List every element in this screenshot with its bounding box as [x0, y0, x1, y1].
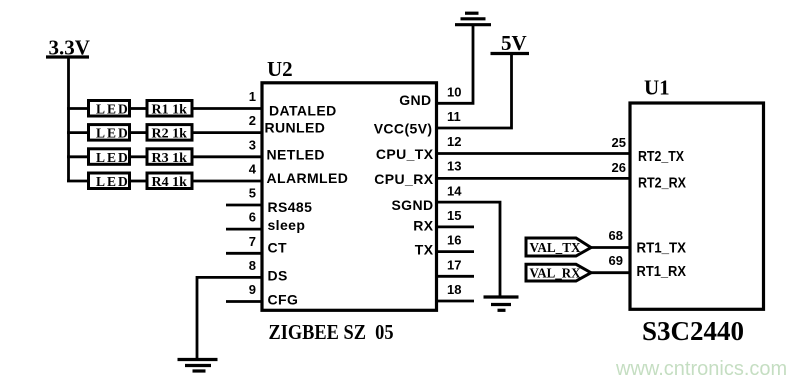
wire bus to LED3 — [67, 155, 88, 158]
wire R3 to U2 pin 3 — [192, 155, 262, 158]
LED D4 — [89, 173, 130, 189]
pin 16 stub and number — [437, 233, 475, 252]
svg-text:15: 15 — [447, 208, 461, 223]
svg-text:ZIGBEE SZ 05: ZIGBEE SZ 05 — [269, 320, 394, 344]
wire U2 pin 12 to U1 pin 25 (CPU_TX to RT2_TX) — [437, 152, 631, 155]
pin 5 stub and number — [226, 186, 262, 206]
svg-text:4: 4 — [249, 162, 257, 177]
svg-text:11: 11 — [447, 109, 461, 124]
svg-text:sleep: sleep — [268, 217, 306, 233]
pin 7 stub and number — [226, 234, 262, 254]
svg-text:DS: DS — [268, 267, 288, 283]
wire R1 to U2 pin 1 — [192, 107, 262, 110]
power 5V — [491, 31, 530, 55]
svg-text:26: 26 — [612, 160, 626, 175]
svg-text:ALARMLED: ALARMLED — [267, 170, 349, 186]
svg-text:18: 18 — [447, 282, 461, 297]
svg-text:7: 7 — [249, 234, 256, 249]
svg-text:CPU_TX: CPU_TX — [376, 146, 434, 162]
svg-text:RUNLED: RUNLED — [265, 120, 326, 136]
wire bus to LED4 — [67, 180, 88, 183]
svg-text:8: 8 — [249, 258, 256, 273]
svg-text:25: 25 — [612, 135, 626, 150]
svg-text:17: 17 — [447, 257, 461, 272]
svg-text:5: 5 — [249, 186, 256, 201]
IC U2 body — [262, 83, 437, 310]
wire LED2 to R2 — [131, 131, 147, 134]
LED D2 — [89, 125, 130, 141]
power 3.3V — [46, 36, 90, 60]
LED D1 — [89, 101, 130, 117]
resistor R1 1k — [147, 101, 192, 118]
pin 9 stub and number — [226, 282, 262, 302]
svg-text:LED: LED — [96, 102, 130, 117]
signal flag VAL_RX — [526, 264, 591, 281]
svg-text:U1: U1 — [644, 76, 670, 100]
svg-text:VAL_RX: VAL_RX — [530, 266, 581, 281]
ground symbol top (inverted) — [455, 13, 491, 25]
wire R4 to U2 pin 4 — [192, 180, 262, 183]
svg-text:2: 2 — [249, 113, 256, 128]
svg-text:LED: LED — [96, 174, 130, 189]
svg-text:GND: GND — [399, 92, 431, 108]
ground symbol bottom left — [178, 360, 218, 372]
wire bus to LED2 — [67, 131, 88, 134]
svg-text:U2: U2 — [267, 57, 293, 81]
resistor R2 1k — [147, 125, 192, 142]
svg-text:VAL_TX: VAL_TX — [530, 240, 581, 255]
svg-text:www.cntronics.com: www.cntronics.com — [615, 358, 787, 380]
svg-text:12: 12 — [447, 134, 461, 149]
svg-text:LED: LED — [96, 150, 130, 165]
svg-text:9: 9 — [249, 282, 256, 297]
svg-text:RT1_RX: RT1_RX — [637, 264, 687, 280]
wire LED4 to R4 — [131, 180, 147, 183]
wire R2 to U2 pin 2 — [192, 131, 262, 134]
wire 3.3V bus vertical — [67, 57, 70, 181]
wire VAL_TX to U1 pin 68 — [591, 246, 630, 249]
svg-text:VCC(5V): VCC(5V) — [374, 121, 433, 137]
wire U2 pin 8 to ground — [197, 277, 262, 358]
svg-text:CPU_RX: CPU_RX — [374, 171, 433, 187]
svg-text:R2 1k: R2 1k — [152, 127, 188, 142]
svg-text:16: 16 — [447, 233, 461, 248]
svg-text:RT2_TX: RT2_TX — [638, 149, 684, 165]
svg-text:R3 1k: R3 1k — [152, 151, 188, 166]
svg-text:69: 69 — [609, 253, 623, 268]
svg-text:3: 3 — [249, 137, 256, 152]
resistor R4 1k — [147, 173, 192, 190]
wire U2 pin 11 to 5V — [437, 54, 512, 128]
wire U2 pin 10 to top ground — [437, 25, 474, 103]
svg-text:TX: TX — [415, 242, 434, 258]
svg-text:CT: CT — [268, 240, 288, 256]
svg-text:DATALED: DATALED — [269, 103, 337, 119]
svg-text:SGND: SGND — [391, 197, 433, 213]
svg-text:13: 13 — [447, 159, 461, 174]
wire LED3 to R3 — [131, 155, 147, 158]
resistor R3 1k — [147, 149, 192, 166]
svg-text:NETLED: NETLED — [267, 146, 325, 162]
svg-text:1: 1 — [249, 89, 256, 104]
svg-text:10: 10 — [447, 85, 461, 100]
svg-text:14: 14 — [447, 183, 462, 198]
wire U2 pin 14 (SGND) to ground — [437, 202, 501, 296]
svg-text:RT1_TX: RT1_TX — [637, 240, 687, 256]
IC U1 body — [630, 103, 764, 309]
pin 6 stub and number — [226, 210, 262, 230]
svg-text:68: 68 — [609, 228, 623, 243]
svg-text:R1 1k: R1 1k — [152, 103, 188, 118]
LED D3 — [89, 149, 130, 165]
wire VAL_RX to U1 pin 69 — [591, 271, 630, 274]
pin 18 stub and number — [437, 282, 475, 301]
svg-text:CFG: CFG — [268, 291, 299, 307]
svg-text:S3C2440: S3C2440 — [642, 316, 744, 346]
pin 17 stub and number — [437, 257, 475, 276]
svg-text:RT2_RX: RT2_RX — [638, 176, 686, 192]
svg-text:5V: 5V — [501, 31, 527, 55]
svg-text:RS485: RS485 — [268, 199, 313, 215]
wire bus to LED1 — [67, 107, 88, 110]
svg-text:LED: LED — [96, 126, 130, 141]
wire U2 pin 13 to U1 pin 26 (CPU_RX to RT2_RX) — [437, 177, 631, 180]
signal flag VAL_TX — [526, 238, 591, 256]
wire LED1 to R1 — [131, 107, 147, 110]
pin 15 stub and number — [437, 208, 475, 227]
svg-text:6: 6 — [249, 210, 256, 225]
ground symbol middle — [484, 297, 519, 310]
svg-text:R4 1k: R4 1k — [152, 175, 188, 190]
svg-text:RX: RX — [413, 218, 434, 234]
